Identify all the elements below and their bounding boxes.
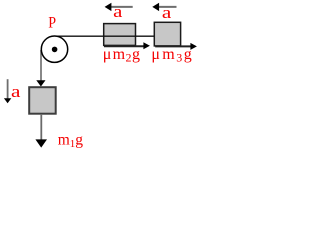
svg-text:a: a: [11, 82, 21, 101]
svg-text:m1g: m1g: [58, 131, 84, 150]
friction force arrow under block m2: [104, 45, 144, 47]
pulley P wheel: [41, 36, 67, 62]
svg-text:a: a: [162, 3, 172, 22]
wire string from pulley down to block m1 with arrowhead: [40, 50, 42, 81]
acceleration arrow a beside block m1: [7, 79, 9, 99]
svg-text:μm3g: μm3g: [151, 46, 193, 65]
weight force arrow m1g below block m1: [40, 114, 42, 140]
friction force arrow under block m3: [155, 45, 191, 47]
acceleration arrow a over block m3: [159, 6, 177, 8]
svg-text:μm2g: μm2g: [103, 46, 141, 65]
acceleration arrow a over block m2: [111, 6, 133, 8]
svg-text:a: a: [113, 2, 123, 21]
svg-text:P: P: [48, 15, 56, 32]
block m2: [104, 24, 136, 46]
block m3: [154, 22, 180, 46]
block m1: [29, 87, 56, 114]
wire string from pulley top to block m3: [55, 35, 154, 37]
pulley axle dot: [52, 47, 58, 53]
